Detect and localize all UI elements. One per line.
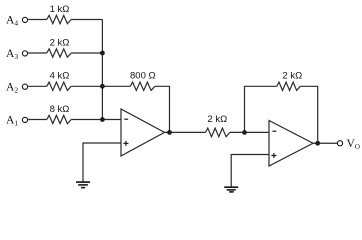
junction dot U1 output/feedback [167,130,172,135]
wire A2 terminal to resistor [28,85,47,87]
op-amp U2 non-inverting input sign [271,153,276,158]
wire A3 terminal to resistor [28,52,47,54]
svg-text:8 kΩ: 8 kΩ [50,104,70,115]
junction dot A1/bus [100,117,105,122]
wire summing node to R5 [102,85,130,87]
junction dot U2 inverting input/feedback [242,130,247,135]
resistor R4 (1 kΩ) [47,15,71,23]
wire A4 terminal to resistor [28,19,47,21]
wire A3 resistor to bus [71,52,102,54]
resistor R2 (4 kΩ) [47,82,71,90]
op-amp U1 [121,109,165,156]
terminal A1 [22,117,27,122]
svg-text:2 kΩ: 2 kΩ [50,37,70,48]
resistor R5 (800 Ω) feedback U1 [130,82,155,90]
terminal A2 [22,84,27,89]
wire U2 non-inverting input to ground [231,155,269,188]
svg-text:2 kΩ: 2 kΩ [207,114,227,125]
terminal A4 [22,17,27,22]
wire A1 terminal to resistor [28,119,47,121]
wire A2 resistor to bus [71,85,102,87]
wire A1 resistor to op-amp U1 inverting input [71,119,121,121]
op-amp U2 inverting input sign [272,130,276,132]
wire bus vertical (summing bus) [101,20,103,120]
terminal A3 [22,51,27,56]
resistor R7 (2 kΩ feedback U2) [277,82,301,90]
svg-text:A2: A2 [6,81,18,94]
svg-text:2 kΩ: 2 kΩ [282,70,302,81]
terminal VO [337,141,342,146]
wire U1 output to R6 [165,131,206,133]
wire U1 non-inverting input to ground [83,143,121,182]
wire U2 output to terminal [313,142,337,144]
svg-text:A1: A1 [6,115,18,128]
op-amp U1 inverting input sign [124,118,128,120]
ground 2 [224,187,238,192]
wire A4 resistor to bus corner [71,19,102,21]
svg-text:A4: A4 [6,15,18,28]
svg-text:4 kΩ: 4 kΩ [50,71,70,82]
svg-text:800 Ω: 800 Ω [130,71,156,82]
svg-text:VO: VO [347,138,360,151]
junction dot A2/bus (summing node) [100,84,105,89]
wire R7 to corner and down to U2 output [300,86,317,143]
op-amp U2 [269,121,313,167]
svg-text:A3: A3 [6,48,18,61]
resistor R6 (2 kΩ series) [206,128,230,137]
junction dot U2 output/feedback [315,141,320,146]
wire R5 to feedback corner and down to U1 output [155,86,170,132]
resistor R3 (2 kΩ) [47,49,71,57]
wire R6 to op-amp U2 inverting input [230,131,269,133]
resistor R1 (8 kΩ) [47,115,71,123]
wire feedback U2 up from inverting node [245,86,277,132]
ground 1 [76,182,90,188]
op-amp U1 non-inverting input sign [123,141,128,146]
svg-text:1 kΩ: 1 kΩ [50,4,70,15]
junction dot A3/bus [100,51,105,56]
